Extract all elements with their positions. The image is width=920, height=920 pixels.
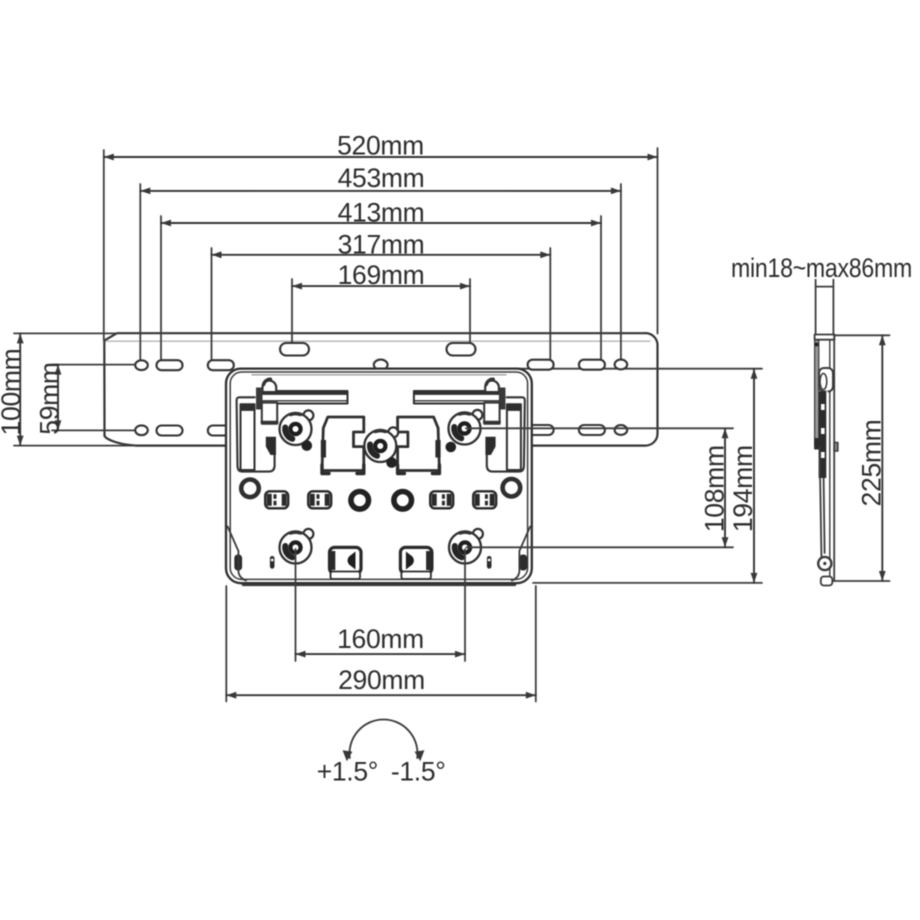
svg-text:453mm: 453mm xyxy=(338,163,425,193)
svg-text:194mm: 194mm xyxy=(728,445,758,532)
svg-text:108mm: 108mm xyxy=(700,445,730,532)
svg-text:290mm: 290mm xyxy=(338,665,425,695)
svg-text:+1.5°: +1.5° xyxy=(317,757,378,787)
svg-text:-1.5°: -1.5° xyxy=(391,757,446,787)
svg-text:317mm: 317mm xyxy=(338,230,425,260)
svg-text:59mm: 59mm xyxy=(35,362,65,434)
svg-text:160mm: 160mm xyxy=(337,624,424,654)
svg-text:520mm: 520mm xyxy=(337,131,424,161)
svg-text:413mm: 413mm xyxy=(338,198,425,228)
svg-text:169mm: 169mm xyxy=(338,260,425,290)
svg-text:min18~max86mm: min18~max86mm xyxy=(731,253,912,283)
svg-text:100mm: 100mm xyxy=(0,349,26,436)
svg-text:225mm: 225mm xyxy=(857,420,887,507)
